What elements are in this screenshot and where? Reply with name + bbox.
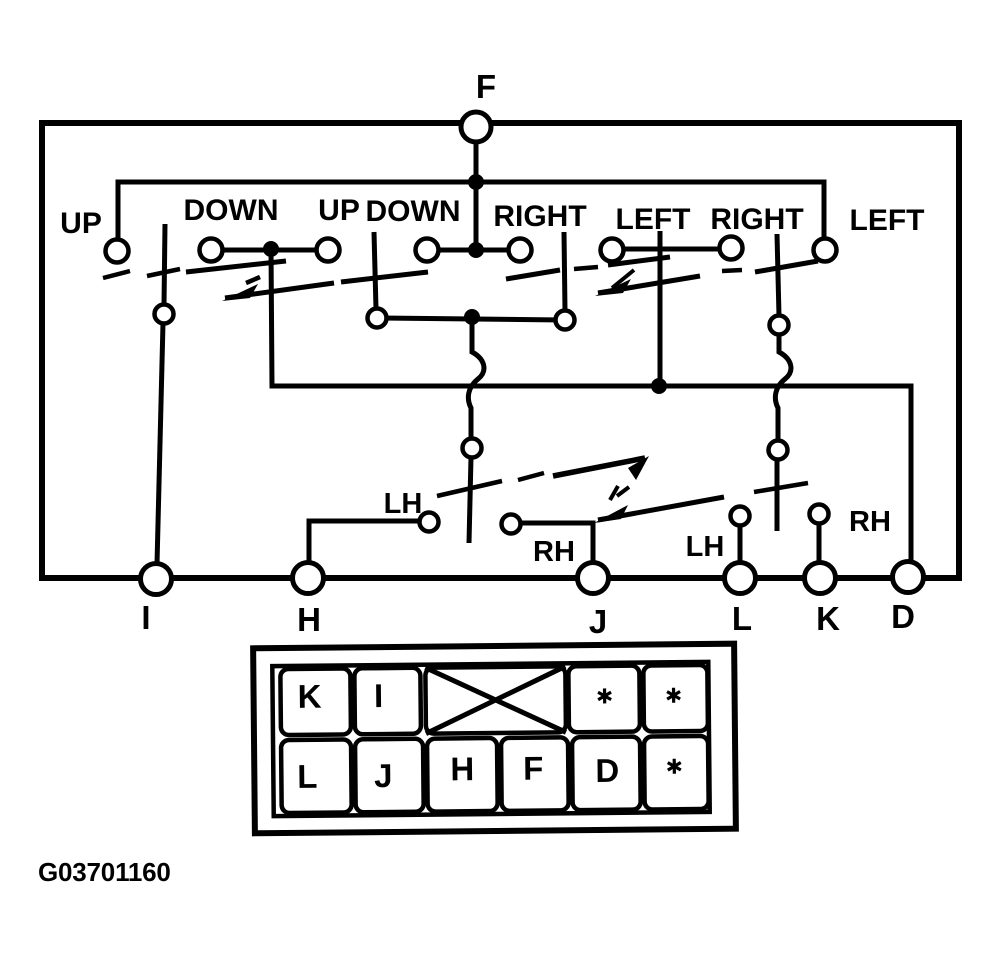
svg-text:F: F xyxy=(523,750,544,787)
svg-text:H: H xyxy=(297,601,321,638)
svg-text:RH: RH xyxy=(533,536,575,568)
svg-text:RH: RH xyxy=(849,506,891,538)
svg-text:J: J xyxy=(374,757,393,794)
svg-text:LEFT: LEFT xyxy=(616,203,691,236)
svg-text:UP: UP xyxy=(318,194,360,227)
svg-text:D: D xyxy=(595,752,619,789)
svg-text:I: I xyxy=(141,599,150,636)
svg-text:I: I xyxy=(374,677,384,714)
svg-text:RIGHT: RIGHT xyxy=(493,200,586,233)
svg-text:RIGHT: RIGHT xyxy=(710,203,803,236)
svg-text:G03701160: G03701160 xyxy=(38,857,171,887)
svg-text:LEFT: LEFT xyxy=(850,204,925,237)
svg-text:K: K xyxy=(816,600,840,637)
svg-text:LH: LH xyxy=(384,488,423,520)
svg-text:DOWN: DOWN xyxy=(366,195,461,228)
svg-text:DOWN: DOWN xyxy=(184,194,279,227)
svg-text:LH: LH xyxy=(686,531,725,563)
svg-text:H: H xyxy=(450,750,474,787)
svg-text:K: K xyxy=(297,678,321,715)
svg-text:L: L xyxy=(297,758,318,795)
svg-text:D: D xyxy=(891,598,915,635)
svg-text:UP: UP xyxy=(60,207,102,240)
svg-text:L: L xyxy=(732,600,752,637)
svg-text:J: J xyxy=(589,603,607,640)
svg-text:F: F xyxy=(476,68,496,105)
